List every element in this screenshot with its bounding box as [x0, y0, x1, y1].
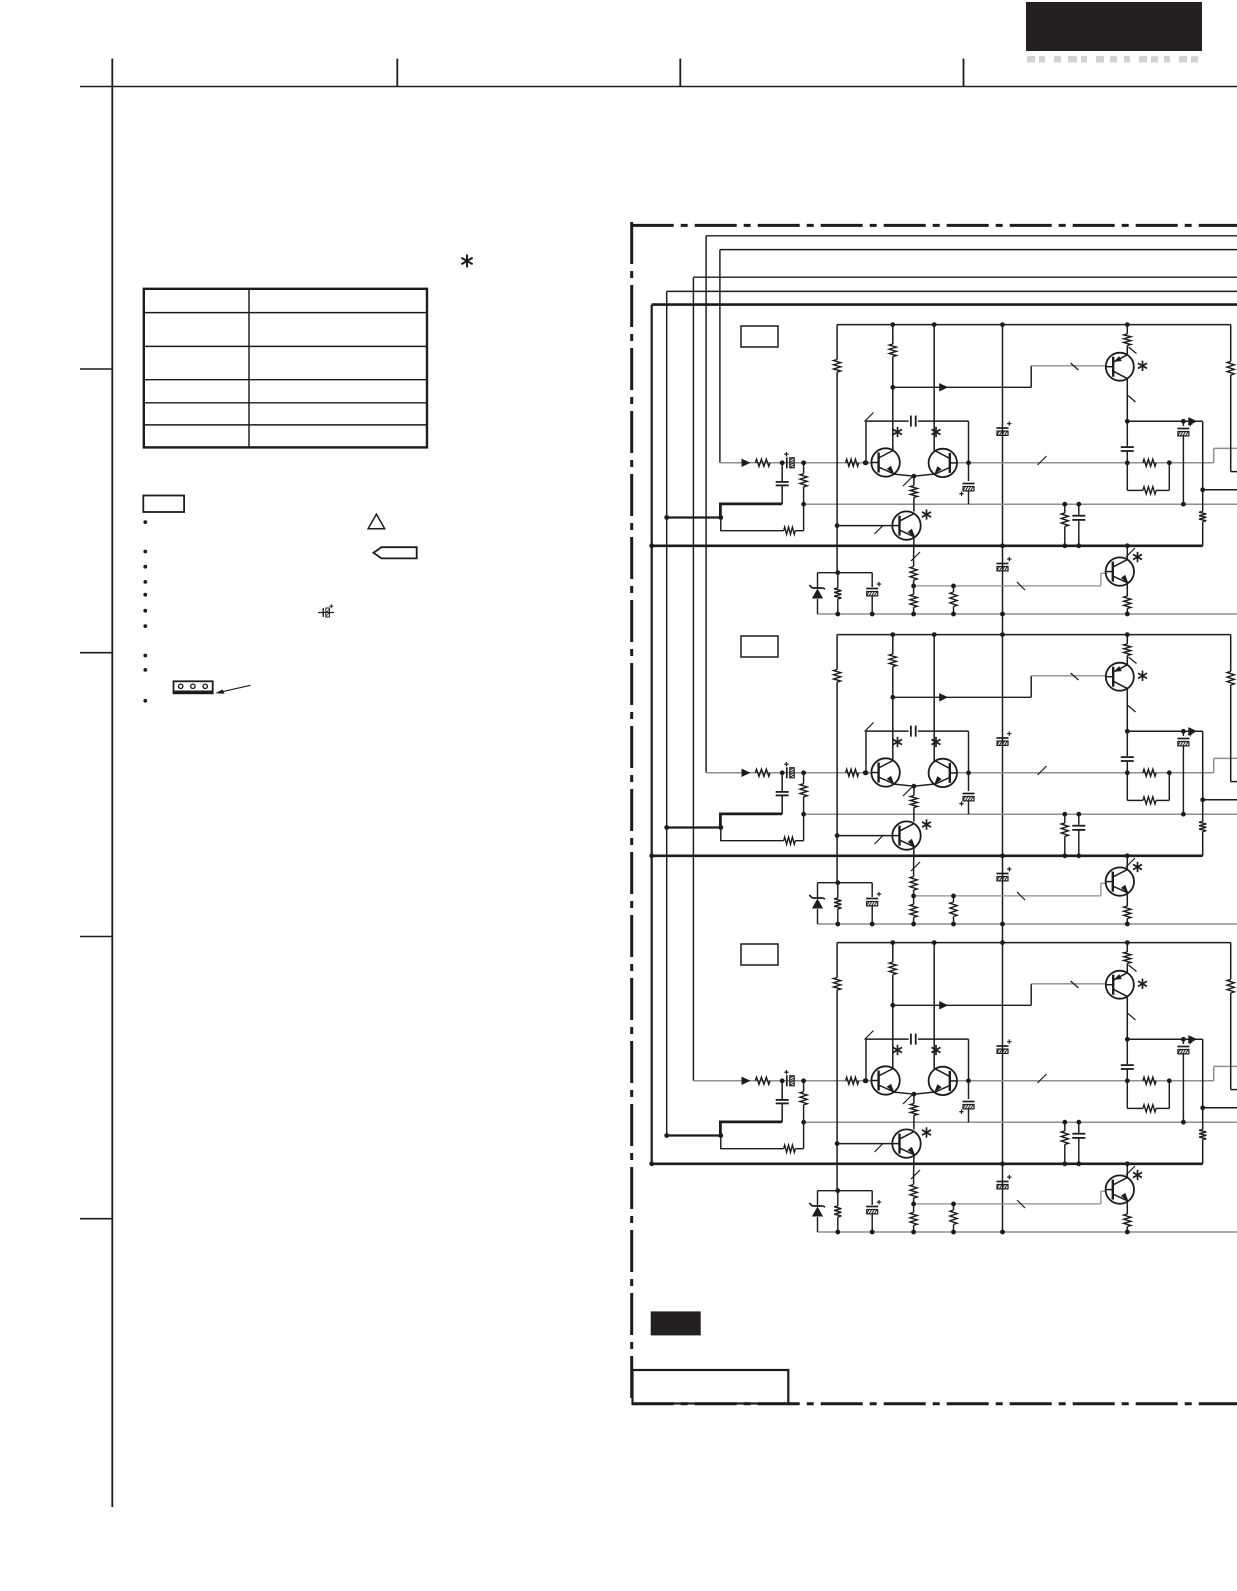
- bus wire CH1 input horizontal: [720, 249, 1237, 251]
- page frame left border: [111, 59, 113, 1507]
- bus wire return vertical: [666, 291, 668, 1135]
- header text remnants (faint): [1027, 56, 1035, 63]
- frame tick top 2: [396, 59, 398, 87]
- parts table (6 rows, 2 columns): [144, 289, 427, 448]
- bus wire CH1 input vertical: [719, 250, 721, 463]
- 3-pin connector legend symbol: [174, 681, 213, 693]
- schematic dash-dot border bottom: [632, 1402, 1237, 1405]
- left-pointing signal flag symbol: [374, 547, 417, 558]
- CH3 input stub wire: [693, 1080, 721, 1082]
- frame tick left 3: [80, 652, 112, 654]
- schematic dash-dot border top: [632, 224, 1237, 227]
- CH2 input stub wire: [706, 772, 721, 774]
- bus wire CH2 input horizontal: [706, 235, 1237, 237]
- bus wire supply horizontal (thick): [652, 303, 1237, 306]
- channel 1 amplifier block: [649, 322, 1237, 616]
- frame tick left 4: [80, 936, 112, 938]
- schematic bottom-left note rectangle: [633, 1370, 789, 1404]
- schematic dash-dot border left: [630, 222, 633, 1404]
- supply mid vertical rail: [1002, 325, 1004, 1232]
- channel 3 amplifier block: [649, 940, 1237, 1234]
- connector pointer arrow: [220, 685, 251, 692]
- frame tick left 2: [80, 368, 112, 370]
- bus wire return horizontal: [667, 290, 1237, 292]
- frame tick top 3: [679, 59, 681, 87]
- footnote black box: [651, 1311, 701, 1335]
- bus wire CH2 input vertical: [705, 236, 707, 773]
- asterisk footnote mark: [466, 255, 468, 268]
- warning triangle symbol: [368, 514, 385, 529]
- bus wire CH3 input vertical: [692, 277, 694, 1081]
- note bullet points: [143, 520, 147, 524]
- enclosure left edge vertical (thick): [651, 305, 653, 1164]
- frame tick top 4: [963, 59, 965, 87]
- header title black box: [1026, 2, 1202, 51]
- bus wire CH3 input horizontal: [693, 276, 1237, 278]
- note box: [143, 496, 184, 513]
- channel 2 amplifier block: [649, 632, 1237, 926]
- page frame top rule: [80, 86, 1237, 88]
- electrolytic capacitor legend symbol: [318, 604, 334, 617]
- frame tick left 5: [80, 1218, 112, 1220]
